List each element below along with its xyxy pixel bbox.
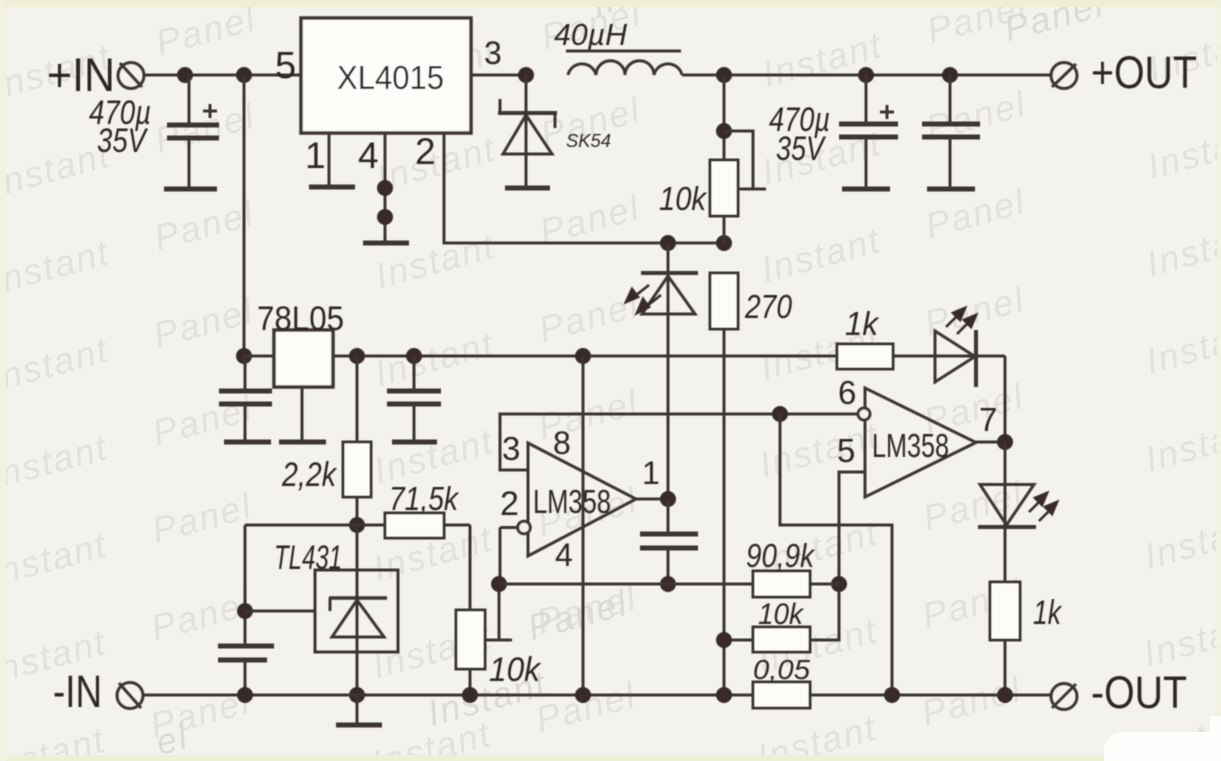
wire R2 bottom column	[723, 329, 726, 695]
capacitor C2 470u 35V output	[769, 75, 898, 189]
capacitor C3	[922, 75, 980, 189]
svg-text:-OUT: -OUT	[1091, 667, 1187, 718]
U4A pin 2 label	[500, 485, 519, 523]
potentiometer R1 10k	[659, 75, 766, 243]
U4B pin 5 wire	[810, 472, 865, 640]
op-amp U4A LM358	[528, 443, 636, 556]
svg-text:LM358: LM358	[872, 427, 949, 464]
wire bottom rail right	[810, 694, 1052, 697]
svg-text:3: 3	[502, 430, 520, 467]
terminal -OUT	[1051, 667, 1187, 718]
svg-text:1k: 1k	[1033, 594, 1063, 632]
resistor R6 1k	[837, 305, 893, 369]
wire feedback bus	[499, 583, 753, 586]
junction bottom rail	[237, 687, 732, 703]
wire U4B output	[976, 434, 1013, 450]
wire U1 pin3 to diode node	[471, 67, 534, 83]
junction R8 left	[716, 632, 732, 648]
wire D3 to U4B output	[1004, 356, 1007, 441]
svg-text:3: 3	[484, 35, 502, 71]
U4A pin 1 label	[642, 455, 660, 491]
svg-text:4: 4	[555, 537, 573, 573]
svg-text:8: 8	[553, 425, 571, 461]
svg-text:10k: 10k	[659, 180, 707, 217]
terminal -IN	[53, 666, 143, 717]
svg-text:10k: 10k	[489, 651, 542, 689]
junction 5V rail	[349, 348, 591, 364]
svg-text:2: 2	[500, 485, 519, 523]
svg-text:1: 1	[305, 135, 326, 176]
LED D4	[978, 442, 1057, 582]
svg-text:+OUT: +OUT	[1091, 47, 1197, 98]
junction pin2 node	[491, 576, 507, 592]
svg-text:78L05: 78L05	[257, 300, 344, 338]
svg-text:5: 5	[275, 45, 296, 87]
capacitor C4	[219, 356, 272, 442]
U1 pin 5 label	[275, 45, 296, 87]
svg-text:SK54: SK54	[566, 131, 611, 151]
wire rail into 78L05	[244, 355, 274, 358]
svg-text:-IN: -IN	[53, 666, 102, 717]
capacitor C5	[387, 356, 441, 442]
svg-text:40µH: 40µH	[554, 17, 628, 52]
svg-text:2,2k: 2,2k	[281, 456, 338, 494]
wire reference divider	[245, 524, 470, 527]
wire bottom rail left	[142, 694, 753, 697]
junction output rail	[716, 67, 958, 83]
svg-text:XL4015: XL4015	[337, 59, 444, 96]
U4A pin 3 label	[502, 430, 520, 467]
capacitor C1 470u 35V	[89, 75, 219, 189]
svg-text:TL431: TL431	[274, 539, 342, 577]
junction shunt right	[884, 687, 1013, 703]
U1 pin 4 wire	[363, 133, 409, 243]
diode D1 SK54	[498, 75, 611, 188]
svg-text:71,5k: 71,5k	[389, 480, 459, 517]
resistor R8 10k	[724, 598, 810, 652]
junction feedback node	[660, 235, 732, 251]
IC U1 XL4015	[301, 18, 471, 133]
U4B pin 7 label	[979, 401, 997, 438]
wire current sense to pin 6	[780, 414, 892, 694]
LED D2	[626, 243, 698, 499]
resistor R4 71.5k	[357, 480, 459, 538]
op-amp U4B LM358	[865, 388, 976, 497]
U4A pin 2 inverting input wire	[500, 521, 530, 584]
resistor R7 90.9k	[746, 537, 840, 597]
U1 pin 2 label	[415, 131, 436, 172]
svg-text:1k: 1k	[845, 305, 879, 342]
svg-text:0,05: 0,05	[753, 654, 810, 685]
terminal +OUT	[1051, 47, 1197, 98]
decorative white blob	[1104, 732, 1221, 761]
resistor R3 2.2k	[281, 356, 371, 525]
wire U4A pin3 input	[500, 414, 857, 470]
junction TL431 anode on rail	[349, 687, 365, 703]
regulator U2 78L05	[257, 300, 344, 387]
svg-text:LM358: LM358	[533, 483, 611, 520]
svg-text:7: 7	[979, 401, 997, 438]
svg-text:35V: 35V	[97, 122, 149, 160]
U4B pin 6 bubble	[858, 408, 870, 420]
wire V+ rail to op-amp and ground	[582, 356, 585, 694]
wire U1 pin 2 to feedback node	[444, 133, 724, 243]
resistor R10 1k	[990, 582, 1063, 695]
svg-text:10k: 10k	[758, 598, 805, 631]
wire +IN node down to 78L05 rail	[243, 75, 246, 356]
svg-text:1: 1	[642, 455, 660, 491]
capacitor C6	[218, 646, 274, 695]
potentiometer R5 10k	[456, 525, 542, 695]
wire 1k to LED D3	[893, 355, 1005, 358]
U4B pin 5 label	[837, 432, 855, 469]
wire 5V rail	[333, 355, 837, 358]
junction 5V rail left	[236, 348, 252, 364]
U1 pin 1 label	[305, 135, 326, 176]
U1 pin 1 wire	[309, 133, 355, 187]
svg-text:5: 5	[837, 432, 855, 469]
U4A pin 4 label	[555, 537, 573, 573]
resistor R2 270	[710, 273, 793, 329]
terminal +IN	[47, 48, 144, 101]
inductor L1 40uH	[554, 17, 682, 75]
wire L1 to +OUT	[682, 74, 1052, 77]
U4B pin 6 label	[838, 374, 856, 411]
svg-text:270: 270	[744, 288, 792, 325]
ground	[336, 695, 382, 725]
resistor R9 0.05 shunt	[753, 654, 810, 708]
junction gain node	[831, 576, 847, 592]
U2 ground pin wire	[279, 387, 326, 442]
wire TL431 ref branch	[244, 525, 247, 644]
wire +IN to XL4015 pin 5	[143, 74, 301, 77]
svg-text:2: 2	[415, 131, 436, 172]
shunt reference U3 TL431	[274, 525, 398, 695]
junction TL431 cathode node	[349, 517, 365, 533]
svg-text:6: 6	[838, 374, 856, 411]
U1 pin 4 label	[358, 135, 379, 176]
wire U4A output	[636, 491, 676, 507]
U1 pin 3 label	[484, 35, 502, 71]
svg-text:90,9k: 90,9k	[746, 537, 815, 574]
svg-text:35V: 35V	[776, 130, 827, 168]
junction compensation node	[660, 576, 676, 592]
junction ref node	[237, 603, 315, 619]
junction input node	[177, 67, 252, 83]
svg-text:4: 4	[358, 135, 379, 176]
wire set node to U4B pin 6	[772, 406, 788, 422]
capacitor C7	[640, 499, 698, 584]
U4A pin 8 label	[553, 425, 571, 461]
LED D3	[935, 308, 976, 387]
